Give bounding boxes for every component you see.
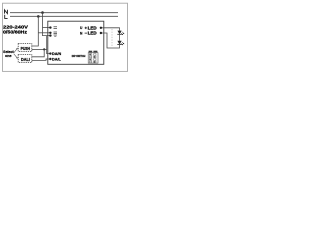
driver box	[48, 21, 104, 64]
svg-text:220-240V: 220-240V	[3, 24, 29, 30]
outer border frame	[3, 3, 128, 71]
PUSH dashed box	[18, 44, 32, 52]
DA/L terminal dot	[49, 58, 51, 60]
-LED terminal dot	[100, 32, 102, 34]
arrow to DALI	[14, 54, 17, 58]
svg-text:DA/N: DA/N	[52, 51, 61, 56]
terminal dot 1	[49, 26, 51, 28]
arrow to PUSH	[14, 49, 17, 53]
node N label	[5, 10, 8, 14]
wire push bottom lead to DA/N	[32, 48, 47, 50]
wire DA/N feed vertical	[47, 36, 51, 54]
+LED terminal dot	[100, 27, 102, 29]
svg-text:PUSH: PUSH	[21, 46, 30, 51]
label +LED	[85, 27, 87, 29]
LED module dashed mark	[111, 29, 113, 46]
svg-text:DA/L: DA/L	[52, 57, 61, 62]
terminal 3 earth glyph	[54, 35, 58, 36]
terminal 2 AC glyph	[54, 32, 58, 34]
junction dot on L line	[37, 15, 40, 18]
LED D1	[117, 31, 124, 35]
wire N stub to terminal 1	[43, 27, 51, 29]
wire L mains line	[10, 15, 118, 17]
svg-text:LED: LED	[88, 31, 97, 36]
terminal 1 AC glyph	[54, 27, 58, 29]
junction dot push/dali	[43, 48, 45, 50]
terminal dot 2	[49, 32, 51, 34]
terminal dot 3	[49, 34, 51, 36]
DA/N terminal dot	[49, 52, 51, 54]
svg-text:DALI: DALI	[21, 57, 30, 62]
dip switch body	[88, 53, 98, 63]
wire dali top lead	[32, 49, 44, 56]
background	[0, 0, 130, 75]
node L label	[5, 15, 8, 19]
wire +LED out	[102, 28, 120, 31]
dip switch rows	[89, 54, 96, 63]
svg-text:DIP SWITCH: DIP SWITCH	[72, 54, 86, 58]
svg-text:one: one	[5, 54, 12, 58]
dip switch header	[89, 51, 93, 53]
wire dali bottom lead to DA/L	[32, 59, 50, 60]
LED D2	[117, 41, 124, 46]
wire N mains line	[10, 12, 118, 14]
wire N drop vertical	[43, 13, 51, 36]
wire L drop vertical to push	[32, 16, 39, 46]
wire LED return	[102, 33, 120, 48]
label -LED	[85, 32, 87, 34]
wire LED string mid	[119, 34, 121, 41]
junction dot on N line	[41, 11, 44, 14]
wire L stub to terminal 2	[38, 32, 50, 34]
DALI dashed box	[18, 55, 32, 63]
svg-text:0/50/60Hz: 0/50/60Hz	[3, 30, 28, 36]
